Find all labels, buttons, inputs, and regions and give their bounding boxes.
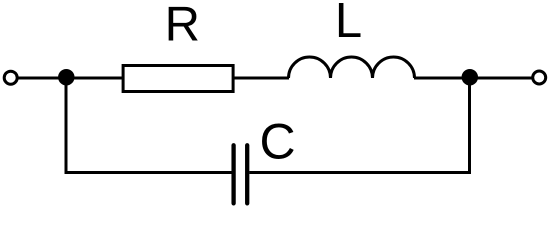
- inductor L (3 humps): [289, 57, 415, 78]
- wire: left junction down to bottom branch: [65, 78, 68, 173]
- capacitor C plate left: [231, 145, 235, 203]
- wire: inductor to right terminal: [414, 77, 532, 80]
- wire: resistor to inductor: [234, 77, 289, 80]
- node left junction dot: [58, 69, 75, 86]
- wire: right junction down to bottom branch: [468, 78, 471, 173]
- wire: left terminal to resistor: [18, 77, 122, 80]
- capacitor C plate right: [245, 145, 249, 203]
- terminal left (open circle): [4, 71, 17, 84]
- svg-text:L: L: [335, 0, 362, 48]
- wire: bottom left segment to capacitor: [65, 171, 232, 174]
- svg-text:C: C: [260, 114, 296, 170]
- resistor R: [123, 66, 233, 92]
- wire: bottom right segment from capacitor: [249, 171, 471, 174]
- node right junction dot: [462, 69, 479, 86]
- terminal right (open circle): [533, 71, 546, 84]
- svg-text:R: R: [165, 0, 200, 51]
